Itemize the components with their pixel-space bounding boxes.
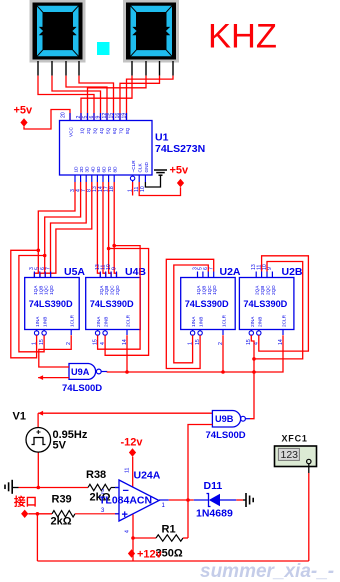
counter U4B 74LS390D: [86, 264, 141, 345]
wire U1 8D to U4B: [114, 182, 116, 278]
svg-text:R38: R38: [86, 469, 106, 481]
wire output to D11: [169, 499, 194, 501]
svg-text:2QC: 2QC: [266, 285, 271, 295]
wire U1 5D to U4B: [97, 182, 100, 278]
wire DS1 pin3 to U1: [66, 76, 107, 121]
diode D11 1N4689: [194, 494, 237, 507]
svg-text:6: 6: [89, 116, 95, 119]
svg-text:接口: 接口: [14, 495, 37, 509]
wire U1 6D to U4B: [103, 182, 106, 278]
resistor R1 350: [156, 535, 183, 541]
svg-text:1INA: 1INA: [191, 316, 196, 327]
svg-text:2kΩ: 2kΩ: [51, 516, 72, 528]
display DS1 pins: [37, 61, 39, 76]
nand gate U9A 74LS00D: [69, 364, 101, 380]
svg-text:1QA: 1QA: [33, 285, 38, 295]
resistor R39 2k: [52, 511, 75, 517]
svg-text:4Q: 4Q: [99, 127, 104, 134]
wire op-amp pin4 to +12v: [132, 515, 134, 562]
power +5v node left: [20, 118, 27, 126]
svg-text:1D: 1D: [74, 166, 79, 173]
svg-text:summer_xia-_-: summer_xia-_-: [200, 561, 334, 582]
wire port to R39: [28, 513, 52, 515]
wire U4B CKA loop: [98, 246, 141, 350]
svg-text:74LS390D: 74LS390D: [185, 299, 229, 309]
ground near U1: [154, 170, 167, 175]
junction: [125, 370, 129, 374]
net arrow U9A input B: [38, 375, 43, 380]
svg-text:16: 16: [115, 113, 121, 119]
svg-text:2INA: 2INA: [96, 316, 101, 327]
svg-text:2INB: 2INB: [257, 317, 262, 327]
wire V1 top stub: [37, 413, 39, 427]
wire U1 CLR to +5v rail: [132, 182, 134, 196]
seven-segment display DS1: [31, 1, 84, 61]
svg-text:1INB: 1INB: [43, 317, 48, 327]
power +5v node right: [177, 179, 184, 187]
svg-text:U2B: U2B: [282, 266, 303, 278]
svg-text:74LS390D: 74LS390D: [29, 299, 73, 309]
svg-text:+12v: +12v: [137, 549, 163, 561]
junction: [107, 247, 111, 251]
svg-text:19: 19: [121, 113, 127, 119]
svg-text:3Q: 3Q: [93, 127, 98, 134]
wire U9A input B: [38, 377, 69, 379]
svg-text:1QA: 1QA: [196, 285, 201, 295]
wire U9A output stub: [101, 371, 107, 373]
wire R38 to op-amp pin2: [111, 487, 119, 489]
wire U1 3D to U5A: [45, 182, 86, 278]
svg-text:1QC: 1QC: [44, 285, 49, 295]
junction: [112, 244, 116, 248]
svg-text:11: 11: [125, 468, 131, 473]
svg-text:U9B: U9B: [215, 414, 234, 424]
ground left: [5, 480, 12, 494]
svg-text:1QC: 1QC: [207, 285, 212, 295]
wire DS1 pin4 to U1: [79, 76, 114, 121]
wire R1 to output node: [183, 537, 188, 539]
wire bottom rail: [37, 560, 308, 562]
junction: [131, 536, 135, 540]
svg-text:1: 1: [162, 503, 166, 509]
svg-text:D11: D11: [204, 480, 223, 492]
svg-text:3D: 3D: [85, 166, 90, 173]
wire U4B CLR to net: [126, 335, 128, 372]
svg-text:2QD: 2QD: [115, 285, 120, 295]
wire +5v to U1 CLK: [139, 182, 180, 196]
svg-text:5Q: 5Q: [106, 127, 111, 134]
junction: [252, 357, 256, 361]
svg-text:8D: 8D: [113, 166, 118, 173]
svg-text:2INA: 2INA: [250, 316, 255, 327]
svg-text:6Q: 6Q: [112, 127, 117, 134]
svg-text:74LS00D: 74LS00D: [62, 383, 102, 394]
wire U5A QB to CKB loop: [19, 256, 45, 352]
op-amp U24A TL084ACN: [115, 480, 159, 521]
svg-text:2QD: 2QD: [271, 285, 276, 295]
svg-text:1QB: 1QB: [38, 286, 43, 295]
wire +5v to U1 VCC: [24, 110, 70, 130]
svg-text:1Q: 1Q: [80, 127, 85, 134]
wire U1 1D to U5A: [34, 182, 75, 278]
wire U2B inner hook loop: [254, 262, 303, 359]
wire U1 2D to U5A: [40, 182, 81, 278]
wire DS1 pin2 to U1: [52, 76, 101, 121]
seven-segment display DS2: [125, 1, 178, 61]
counter U2A 74LS390D: [181, 267, 236, 345]
svg-text:-12v: -12v: [121, 437, 144, 449]
junction: [37, 249, 41, 253]
svg-text:2INB: 2INB: [104, 317, 109, 327]
chip U1 74LS273N: [60, 112, 153, 192]
svg-text:2QB: 2QB: [260, 286, 265, 295]
svg-text:1CLR: 1CLR: [222, 314, 227, 327]
wire U9B output stub: [245, 418, 250, 420]
svg-text:6D: 6D: [102, 166, 107, 173]
svg-text:74LS00D: 74LS00D: [206, 430, 246, 441]
wire U1 4D to U5A: [51, 182, 92, 278]
wire U2A outer hook loop: [166, 259, 213, 368]
wire XFC1 to bottom rail: [308, 473, 310, 561]
wire U2A CLR to net: [222, 335, 224, 372]
svg-text:74LS390D: 74LS390D: [243, 299, 287, 309]
wire R39 to op-amp pin3: [75, 513, 119, 515]
svg-text:7Q: 7Q: [119, 127, 124, 134]
wire DS2 pin2 to U1: [88, 76, 147, 121]
wire U4B CKB loop: [105, 249, 149, 356]
svg-text:2QA: 2QA: [99, 285, 104, 295]
wire XFC1 terminal down: [308, 464, 310, 473]
svg-text:9: 9: [95, 116, 101, 119]
svg-text:4D: 4D: [90, 166, 95, 173]
svg-text:+5v: +5v: [170, 165, 190, 177]
svg-text:U4B: U4B: [125, 266, 146, 278]
svg-text:2QB: 2QB: [104, 286, 109, 295]
svg-text:3: 3: [101, 508, 105, 514]
svg-text:+: +: [122, 509, 128, 521]
svg-text:5V: 5V: [53, 440, 67, 452]
svg-text:U24A: U24A: [134, 470, 161, 482]
instrument XFC1 frequency counter: [275, 446, 317, 467]
junction output: [186, 498, 190, 502]
svg-text:2: 2: [76, 116, 82, 119]
svg-text:1INA: 1INA: [35, 316, 40, 327]
wire DS2 pin4 to U1: [127, 76, 174, 121]
svg-text:2Q: 2Q: [86, 127, 91, 134]
svg-text:KHZ: KHZ: [208, 18, 277, 56]
svg-text:74LS390D: 74LS390D: [90, 299, 134, 309]
svg-text:GND: GND: [144, 161, 149, 172]
svg-text:7: 7: [45, 267, 51, 270]
svg-text:TL084ACN: TL084ACN: [99, 495, 152, 507]
wire to R1: [133, 537, 156, 539]
svg-text:1QD: 1QD: [212, 285, 217, 295]
svg-text:U5A: U5A: [64, 266, 85, 278]
junction: [252, 370, 256, 374]
junction: [221, 370, 225, 374]
svg-text:8Q: 8Q: [125, 127, 130, 134]
wire U2A inner hook loop: [174, 265, 209, 363]
resistor R38 2k: [88, 484, 111, 490]
wire D11 to ground: [236, 499, 243, 501]
svg-text:2CLR: 2CLR: [282, 314, 287, 327]
counter U2B 74LS390D: [239, 264, 294, 345]
svg-text:9: 9: [111, 267, 117, 270]
junction R39 row: [36, 512, 40, 516]
wire U9A output CLR net: [107, 335, 283, 372]
wire U1 GND to ground: [145, 175, 160, 187]
nand gate U9B 74LS00D: [212, 411, 245, 428]
wire U2B outer hook loop: [259, 256, 309, 351]
svg-text:2QC: 2QC: [110, 285, 115, 295]
counter U5A 74LS390D: [25, 267, 79, 345]
svg-text:74LS273N: 74LS273N: [155, 143, 205, 155]
wire port down to bottom rail: [36, 514, 38, 561]
svg-text:XFC1: XFC1: [282, 434, 308, 444]
svg-text:123: 123: [281, 449, 299, 461]
wire op-amp output: [159, 499, 169, 501]
wire -12v to op-amp pin11: [132, 457, 134, 487]
junction: [43, 254, 47, 258]
ground right of D11: [246, 493, 253, 507]
display DS2 pins: [131, 61, 133, 76]
wire ground row: [19, 487, 89, 489]
svg-text:2D: 2D: [79, 166, 84, 173]
wire V1 bottom stub: [37, 452, 39, 487]
junction V1 bottom: [37, 486, 41, 490]
wire U5A QA to CKA loop: [11, 250, 39, 357]
svg-text:5: 5: [82, 116, 88, 119]
svg-text:1QB: 1QB: [201, 286, 206, 295]
svg-text:1CLR: 1CLR: [70, 314, 75, 327]
wire DS2 pin3 to U1: [120, 76, 160, 121]
svg-text:1QD: 1QD: [49, 285, 54, 295]
svg-text:U2A: U2A: [220, 266, 241, 278]
svg-text:4: 4: [125, 530, 131, 533]
svg-text:2CLR: 2CLR: [126, 314, 131, 327]
svg-text:U1: U1: [155, 132, 169, 144]
wire U9B input from op-amp output: [188, 425, 212, 539]
decimal point: [97, 42, 110, 55]
svg-text:9: 9: [267, 267, 273, 270]
wire U1 7D to U4B: [109, 182, 112, 278]
svg-text:U9A: U9A: [71, 367, 90, 377]
svg-text:1N4689: 1N4689: [196, 508, 233, 520]
svg-text:7D: 7D: [107, 166, 112, 173]
power +12v node: [128, 549, 135, 557]
svg-text:1INB: 1INB: [199, 317, 204, 327]
svg-text:5D: 5D: [96, 166, 101, 173]
svg-text:~CLR: ~CLR: [131, 160, 136, 173]
svg-text:V1: V1: [13, 411, 26, 423]
svg-text:2QA: 2QA: [255, 285, 260, 295]
svg-text:15: 15: [108, 113, 114, 119]
source V1 square wave: [26, 428, 51, 453]
power -12v node: [129, 448, 136, 456]
port node: [21, 510, 28, 518]
wire U5A CLR to U9A input A: [39, 335, 71, 367]
wire DS1 pin1 to U1: [38, 76, 94, 121]
svg-text:CLK: CLK: [138, 163, 143, 173]
net arrow V1 node: [38, 411, 43, 416]
wire DS2 pin1 to U1: [81, 76, 132, 121]
svg-text:20: 20: [61, 112, 67, 118]
svg-text:R39: R39: [52, 494, 72, 506]
svg-text:R1: R1: [162, 524, 176, 536]
svg-text:12: 12: [102, 113, 108, 119]
svg-text:+5v: +5v: [14, 105, 34, 117]
wire U9B output to U2B clock: [250, 335, 254, 419]
wire V1 to U9B input: [38, 412, 212, 414]
ground stem: [12, 487, 18, 489]
svg-text:VCC: VCC: [69, 126, 74, 137]
